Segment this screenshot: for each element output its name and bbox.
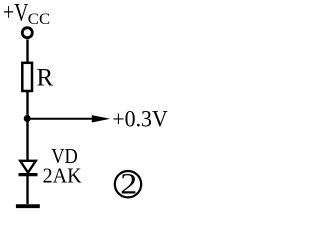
svg-text:+0.3V: +0.3V <box>112 107 168 133</box>
terminal (Vcc) <box>22 28 32 38</box>
diode VD triangle <box>20 161 36 173</box>
wire to output arrow <box>28 118 95 120</box>
wire resistor to diode <box>26 92 28 161</box>
svg-text:CC: CC <box>28 11 50 28</box>
arrowhead <box>92 115 111 122</box>
junction node <box>24 115 31 122</box>
svg-text:R: R <box>37 65 54 92</box>
svg-text:2AK: 2AK <box>43 163 82 187</box>
wire diode to ground <box>26 176 28 204</box>
svg-text:+V: +V <box>3 0 29 27</box>
svg-text:2: 2 <box>120 168 137 200</box>
net label +Vcc <box>3 0 50 28</box>
figure number badge 2 <box>115 168 141 200</box>
ground <box>16 204 40 208</box>
wire terminal to resistor <box>26 39 28 63</box>
diode cathode bar <box>19 173 38 176</box>
resistor R <box>22 63 32 91</box>
